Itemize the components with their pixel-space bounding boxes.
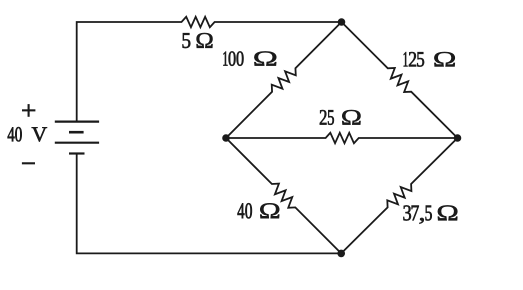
wire bottom rail from battery to bottom node: [77, 154, 342, 254]
node top: [338, 18, 346, 26]
resistor R3 125 ohm (top node to right node): [342, 22, 458, 138]
resistor R5 40 ohm (left node to bottom node): [226, 138, 341, 253]
label 125 ohm: [404, 52, 455, 67]
wire left vertical + top rail with resistor R1 (5 ohm): [77, 17, 342, 122]
label minus sign: [22, 162, 35, 164]
label 100 ohm: [223, 51, 276, 65]
battery short plate 2: [69, 152, 85, 154]
node right: [454, 134, 462, 142]
label plus sign: [22, 104, 35, 117]
label 25 ohm: [320, 110, 361, 125]
resistor R6 37.5 ohm (right node to bottom node): [341, 138, 457, 253]
label 40 ohm: [238, 203, 280, 218]
battery long plate 1: [55, 120, 99, 122]
battery V1 plates: [55, 122, 99, 154]
node left: [222, 134, 230, 142]
label 40 V: [8, 127, 47, 142]
label 5 ohm: [183, 33, 213, 48]
node bottom: [337, 250, 345, 258]
resistor R4 25 ohm (left node to right node): [226, 133, 458, 143]
label 37.5 ohm: [403, 205, 457, 223]
battery long plate 2: [55, 142, 99, 144]
battery short plate 1: [69, 131, 84, 134]
resistor R2 100 ohm (top node to left node): [226, 22, 342, 138]
